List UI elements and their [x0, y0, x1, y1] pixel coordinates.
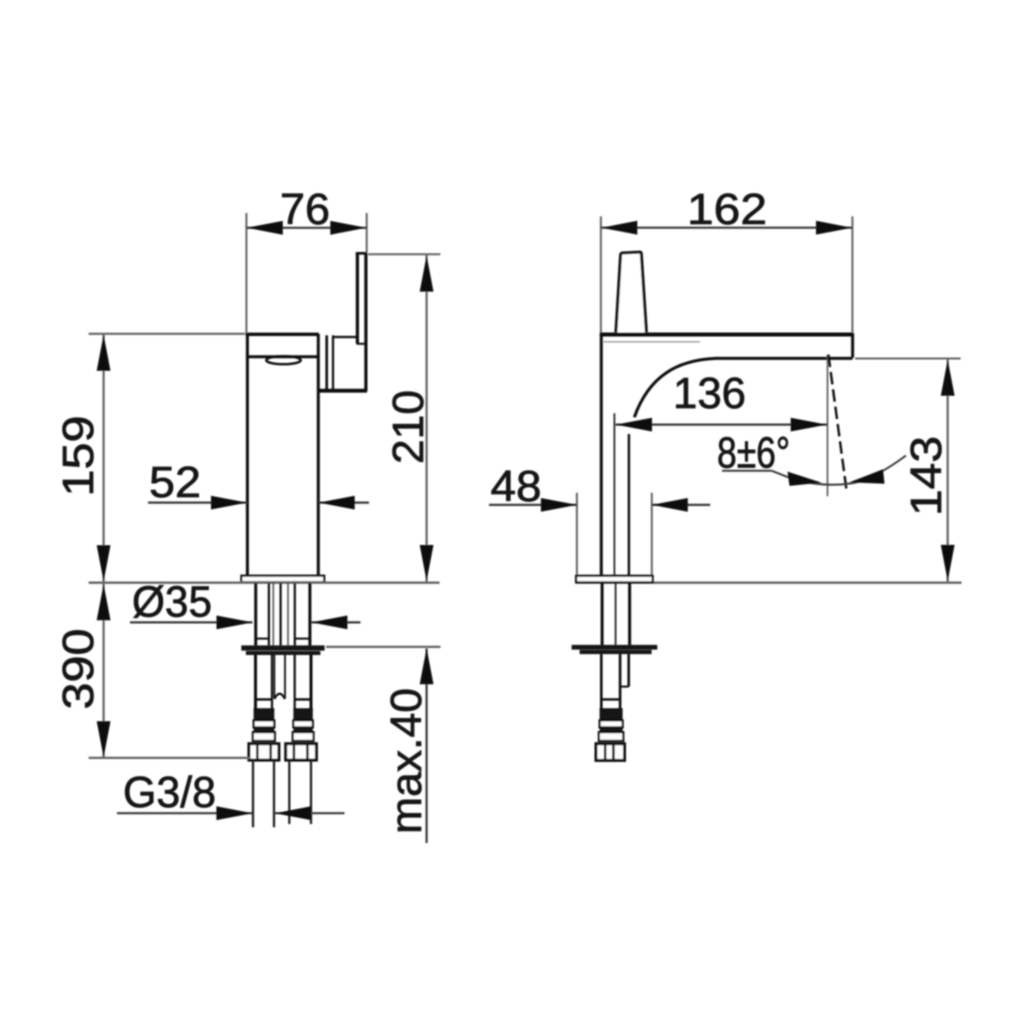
dimension Ø35 [130, 578, 361, 630]
threaded rod right front [293, 699, 314, 740]
deck base plate front [241, 576, 324, 583]
svg-text:76: 76 [280, 185, 330, 234]
hose tails below nuts front [253, 760, 311, 827]
stream angle reference vertical [827, 355, 829, 497]
stream angle slanted line [828, 355, 846, 492]
dimension G3/8 [117, 768, 345, 820]
dimension 143 [855, 359, 961, 582]
water stream lines side [613, 413, 615, 581]
hex nut right front [286, 744, 317, 760]
dimension 52 [148, 458, 369, 510]
dimension 210 [368, 254, 440, 582]
svg-text:210: 210 [384, 390, 433, 464]
svg-text:max.40: max.40 [382, 688, 431, 834]
svg-text:143: 143 [902, 436, 951, 516]
shank below flange front [256, 655, 312, 709]
spout dish ellipse front [266, 356, 301, 364]
svg-text:136: 136 [673, 369, 746, 418]
handle lever side view [616, 252, 647, 332]
dimension 48 [489, 462, 710, 582]
threaded rod left front [253, 699, 275, 740]
dimension 8±6° [717, 429, 906, 486]
faucet body front view [246, 334, 319, 577]
below-deck shank lines front [256, 583, 310, 645]
dimension 136 [616, 369, 828, 432]
dimension 390 [54, 583, 250, 758]
mounting flange side [572, 645, 658, 650]
faucet body side view [600, 333, 853, 582]
below-deck shank side [602, 583, 630, 645]
dimension max.40 [326, 647, 440, 843]
svg-text:159: 159 [54, 416, 103, 497]
handle lever plate front [356, 253, 367, 391]
svg-text:52: 52 [149, 458, 201, 507]
handle arm housing front [318, 335, 367, 390]
deck line left [89, 582, 440, 584]
dimension 76 [246, 185, 366, 333]
dimension 159 [54, 334, 245, 582]
svg-text:Ø35: Ø35 [132, 578, 212, 627]
hose arch front [274, 694, 285, 699]
hex nut left front [249, 744, 279, 760]
svg-text:G3/8: G3/8 [123, 768, 216, 817]
spout underside curve side [634, 358, 852, 417]
svg-text:390: 390 [54, 629, 103, 710]
shank below flange side [601, 654, 628, 709]
mounting flange front [241, 645, 324, 650]
spout lip line front [246, 355, 319, 358]
hex nut side [596, 744, 625, 761]
svg-text:162: 162 [687, 185, 767, 234]
svg-text:48: 48 [491, 462, 542, 511]
threaded rod side [599, 699, 623, 740]
dimension 162 [601, 185, 853, 332]
deck line right [576, 582, 962, 584]
deck base plate side [576, 576, 653, 583]
